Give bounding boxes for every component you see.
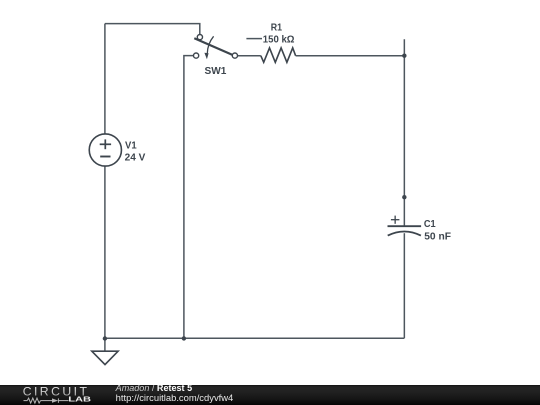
svg-text:Amadon / Retest 5: Amadon / Retest 5 — [115, 385, 192, 393]
svg-text:150 kΩ: 150 kΩ — [263, 33, 295, 45]
svg-text:http://circuitlab.com/cdyvfw4: http://circuitlab.com/cdyvfw4 — [116, 393, 234, 403]
svg-text:SW1: SW1 — [205, 65, 227, 77]
svg-text:24 V: 24 V — [125, 152, 146, 164]
svg-text:R1: R1 — [271, 22, 282, 34]
svg-text:50 nF: 50 nF — [424, 230, 451, 242]
svg-text:V1: V1 — [125, 140, 137, 152]
svg-text:C1: C1 — [424, 218, 436, 230]
svg-text:LAB: LAB — [68, 395, 91, 403]
